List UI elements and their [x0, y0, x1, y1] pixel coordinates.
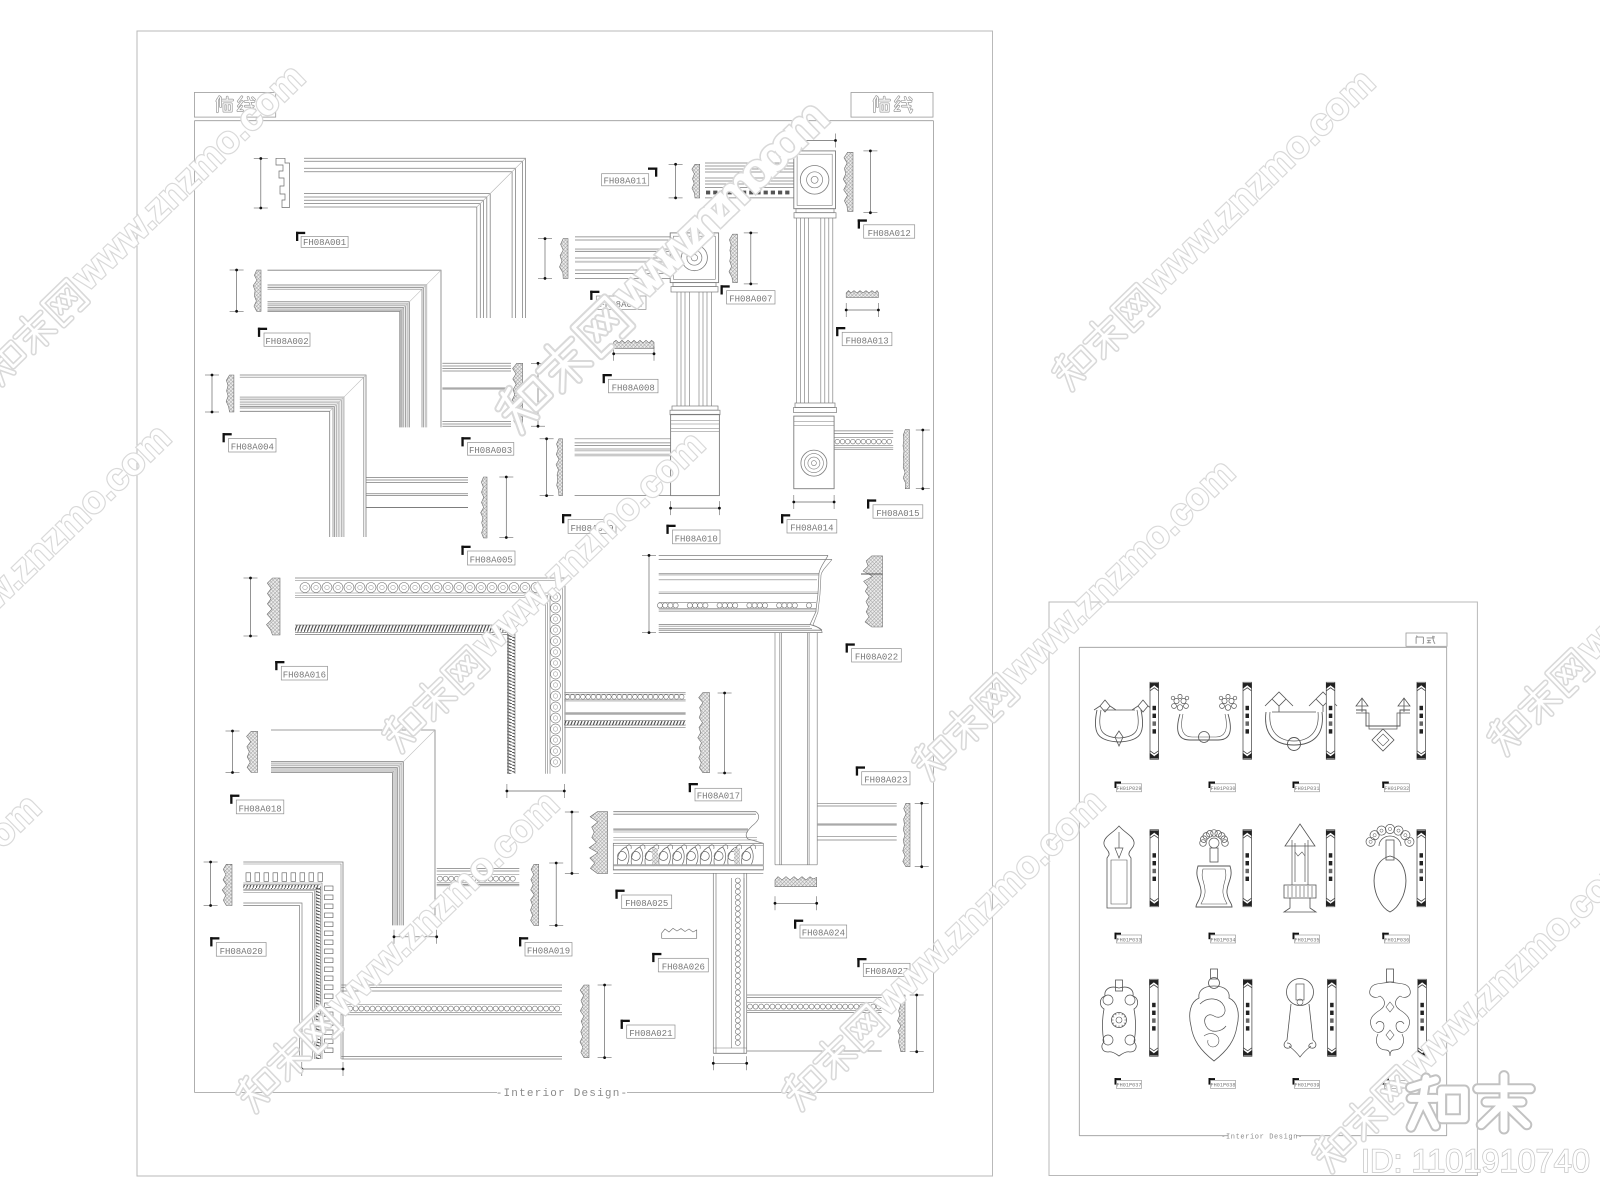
hardware FH01P037 shield plate	[1116, 980, 1123, 991]
detail FH08A002 corner molding	[236, 270, 238, 311]
svg-text:-Interior Design-: -Interior Design-	[1221, 1134, 1303, 1142]
hardware rod	[1150, 979, 1159, 1056]
hardware FH01P038 carved oval plate	[1211, 969, 1218, 979]
hardware rod	[1417, 830, 1426, 907]
detail FH08A020 dentil rope corner	[210, 862, 212, 906]
detail FH08A027 baseboard strip	[747, 994, 882, 996]
svg-text:-Interior Design-: -Interior Design-	[496, 1088, 629, 1100]
svg-text:FH08A019: FH08A019	[527, 947, 570, 957]
right sheet inner frame	[1079, 646, 1446, 648]
detail FH08A015 profile	[903, 430, 909, 489]
detail FH08A011 architrave strip	[675, 164, 677, 198]
hardware rod	[1417, 682, 1426, 759]
detail FH08A014 plinth block with rosette	[794, 416, 834, 489]
detail FH08A013 ridged strip	[846, 291, 878, 298]
hardware rod	[1328, 979, 1337, 1056]
svg-text:FH01P039: FH01P039	[1295, 1083, 1320, 1089]
svg-text:FH08A007: FH08A007	[729, 295, 772, 305]
hardware FH01P031 ring pull	[1265, 692, 1293, 712]
hardware FH01P033 arch plate	[1104, 826, 1134, 908]
detail FH08A025 carved frieze with pilaster	[571, 812, 573, 873]
svg-text:FH08A016: FH08A016	[283, 671, 326, 681]
svg-text:FH01P034: FH01P034	[1211, 937, 1236, 943]
hardware rod	[1418, 979, 1427, 1056]
svg-text:FH08A004: FH08A004	[231, 443, 274, 453]
svg-text:FH01P033: FH01P033	[1117, 937, 1142, 943]
hardware FH01P034 vase plate	[1200, 840, 1207, 847]
detail FH08A021 panel strip	[342, 984, 563, 986]
hardware FH01P039 keyhole plate	[1287, 979, 1314, 1006]
svg-text:FH01P032: FH01P032	[1384, 786, 1409, 792]
svg-text:ID: 1101910740: ID: 1101910740	[1361, 1143, 1590, 1179]
svg-text:FH08A022: FH08A022	[855, 653, 898, 663]
detail FH08A012 rosette block and pilaster	[794, 140, 836, 142]
svg-text:FH08A017: FH08A017	[697, 792, 740, 802]
hardware rod	[1243, 682, 1252, 759]
detail FH08A003 molding strip	[442, 362, 511, 364]
svg-text:FH08A008: FH08A008	[612, 383, 655, 393]
detail FH08A008 ridged strip	[614, 340, 654, 348]
hardware FH01P035 candle pull	[1285, 824, 1315, 846]
detail FH08A006 architrave strip	[544, 239, 546, 279]
svg-text:FH08A026: FH08A026	[662, 963, 705, 973]
right sheet title box (men shi)	[1406, 633, 1447, 646]
detail FH08A016 bead and rope corner	[250, 578, 252, 636]
svg-text:FH01P031: FH01P031	[1295, 786, 1320, 792]
znzmo logo bottom right	[1410, 1076, 1530, 1129]
detail FH08A004 corner molding	[211, 375, 213, 412]
right sheet outer border	[1049, 602, 1477, 1176]
hardware rod	[1326, 682, 1335, 759]
detail FH08A022 crown molding	[648, 555, 650, 632]
hardware FH01P029 drop handle	[1094, 700, 1116, 712]
hardware FH01P036 fan crown drop	[1366, 837, 1375, 846]
detail FH08A023 strip	[817, 802, 897, 804]
svg-text:FH08A023: FH08A023	[864, 776, 907, 786]
watermark layer	[0, 56, 313, 386]
svg-text:FH08A025: FH08A025	[625, 899, 668, 909]
detail FH08A018 corner molding	[232, 731, 234, 773]
hardware FH01P040 scroll plate	[1387, 969, 1394, 982]
svg-text:FH08A011: FH08A011	[603, 176, 646, 186]
hardware rod	[1326, 830, 1335, 907]
hardware rod	[1243, 979, 1252, 1056]
detail FH08A017 decorated strips	[564, 692, 685, 694]
svg-text:FH08A005: FH08A005	[470, 556, 513, 566]
detail FH08A024 ridged strip	[775, 877, 817, 887]
detail FH08A005 tee joint	[366, 477, 468, 479]
svg-text:FH01P037: FH01P037	[1117, 1083, 1142, 1089]
svg-text:FH08A012: FH08A012	[868, 229, 911, 239]
detail FH08A026 wavy profile strip	[662, 928, 697, 938]
hardware FH01P030 swing bail	[1174, 698, 1179, 703]
svg-text:FH08A014: FH08A014	[790, 524, 833, 534]
svg-text:FH08A003: FH08A003	[469, 446, 512, 456]
svg-text:FH08A001: FH08A001	[303, 238, 346, 248]
detail FH08A007 rosette block and pilaster	[670, 233, 718, 283]
hardware rod	[1150, 830, 1159, 907]
hardware rod	[1243, 830, 1252, 907]
left sheet inner frame	[194, 120, 933, 122]
svg-text:FH08A024: FH08A024	[802, 929, 845, 939]
detail FH08A009 baseboard strip	[546, 439, 548, 496]
svg-text:FH01P035: FH01P035	[1295, 937, 1320, 943]
left sheet outer border	[137, 31, 993, 1176]
svg-text:FH08A010: FH08A010	[675, 534, 718, 544]
svg-text:FH01P038: FH01P038	[1211, 1083, 1236, 1089]
svg-text:FH08A013: FH08A013	[845, 336, 888, 346]
svg-text:FH08A002: FH08A002	[265, 337, 308, 347]
svg-text:FH08A015: FH08A015	[876, 509, 919, 519]
left sheet title box 2 (shi xian)	[851, 93, 933, 118]
detail FH08A019 bead strip	[437, 868, 520, 870]
svg-text:FH08A021: FH08A021	[629, 1029, 672, 1039]
detail FH08A010 plinth block	[671, 414, 720, 495]
svg-text:FH01P036: FH01P036	[1384, 937, 1409, 943]
left sheet title box 1 (shi xian)	[194, 93, 275, 118]
svg-text:FH08A020: FH08A020	[220, 947, 263, 957]
svg-text:FH01P030: FH01P030	[1211, 786, 1236, 792]
hardware rod	[1150, 682, 1159, 759]
svg-text:FH01P029: FH01P029	[1117, 786, 1142, 792]
svg-text:FH08A018: FH08A018	[238, 804, 281, 814]
hardware FH01P032 yoke pull	[1356, 698, 1368, 712]
detail FH08A001 corner molding	[260, 159, 262, 209]
